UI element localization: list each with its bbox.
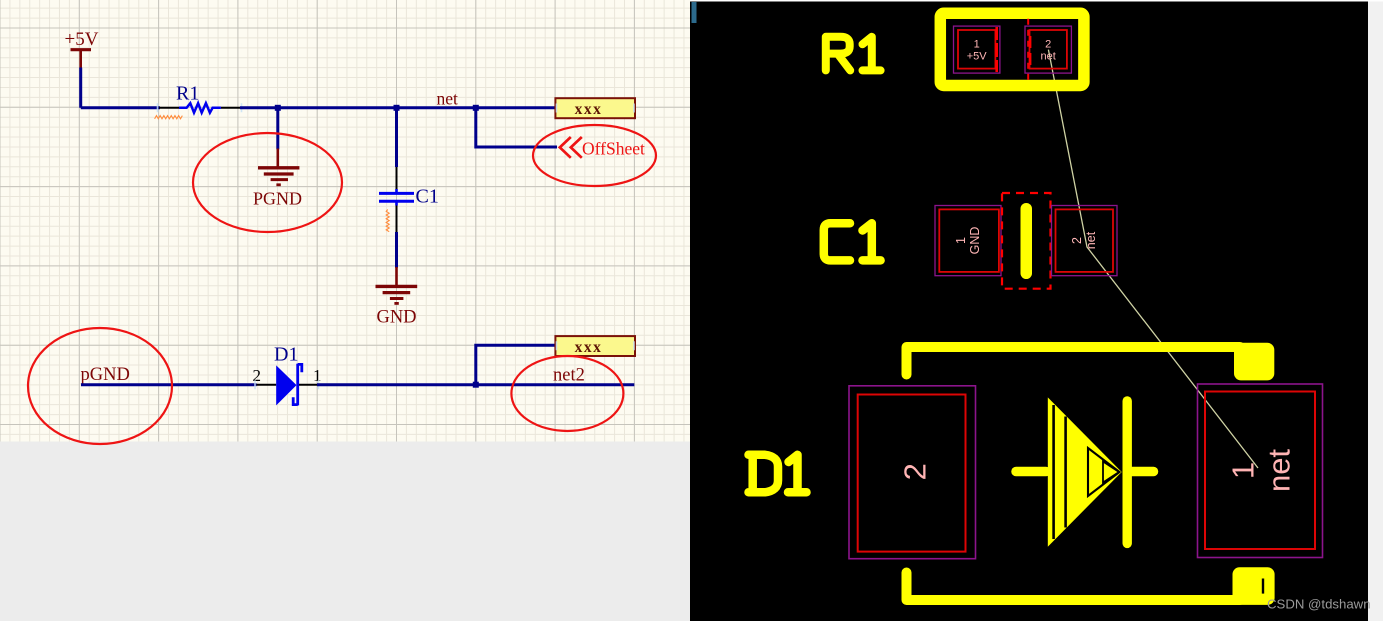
R1 footprint outline — [940, 13, 1084, 85]
annotation ellipse around OffSheet — [533, 125, 656, 186]
annotation ellipse around net2 — [511, 356, 623, 431]
R1 pad 2 — [1025, 26, 1071, 73]
major grid — [0, 0, 690, 442]
C1 courtyard dashed — [1002, 193, 1051, 289]
svg-text:2: 2 — [1070, 237, 1084, 244]
wire main horizontal middle — [240, 106, 555, 109]
R1 selection dashed line — [1027, 19, 1029, 80]
svg-text:GND: GND — [376, 308, 416, 328]
wire bottom left — [81, 383, 257, 386]
svg-text:net: net — [1041, 51, 1056, 63]
designator C1 (pcb) — [824, 223, 881, 260]
svg-text:OffSheet: OffSheet — [582, 139, 645, 159]
C1 silk bar — [1021, 203, 1033, 279]
svg-text:1: 1 — [313, 366, 322, 385]
port xxx top — [555, 98, 635, 118]
svg-text:net: net — [1262, 449, 1297, 492]
svg-text:xxx: xxx — [575, 101, 603, 118]
ground PGND — [253, 149, 302, 209]
wire C1 bottom — [395, 232, 398, 268]
svg-text:2: 2 — [898, 463, 933, 480]
scrollbar strip right — [1368, 0, 1383, 621]
pcb panel background — [690, 2, 1368, 622]
svg-text:R1: R1 — [176, 83, 199, 105]
error squiggle C1 — [386, 210, 389, 232]
wire C1 top — [395, 108, 398, 167]
C1 pad 2 — [1052, 206, 1118, 276]
gray area below sheet — [0, 442, 690, 622]
svg-text:2: 2 — [253, 366, 262, 385]
svg-text:CSDN @tdshawn: CSDN @tdshawn — [1267, 597, 1371, 612]
D1 pad 1 — [1198, 384, 1323, 558]
svg-text:PGND: PGND — [253, 189, 302, 209]
svg-text:+5V: +5V — [65, 29, 99, 50]
junction node R1/PGND — [275, 105, 281, 111]
svg-text:net2: net2 — [553, 366, 585, 386]
ratsnest line R1.2-C1.2-D1.1 — [1048, 50, 1258, 468]
svg-text:+5V: +5V — [967, 51, 988, 63]
svg-text:xxx: xxx — [575, 339, 603, 356]
svg-text:pGND: pGND — [81, 365, 130, 385]
D1 pad 2 — [849, 386, 976, 559]
annotation ellipse around PGND — [193, 133, 342, 232]
junction node net2 — [473, 382, 479, 388]
wire main horizontal left — [81, 106, 160, 109]
annotation ellipse around pGND — [28, 328, 172, 444]
resistor R1 — [158, 83, 242, 113]
junction node C1 — [394, 105, 400, 111]
R1 pad 1 — [954, 26, 1000, 73]
top white line — [690, 0, 1383, 2]
svg-text:net: net — [1084, 231, 1098, 249]
designator D1 (pcb) — [749, 455, 807, 493]
svg-text:2: 2 — [1045, 39, 1051, 51]
capacitor C1 — [379, 167, 439, 232]
wire bottom middle — [317, 383, 634, 386]
port xxx bottom — [555, 336, 635, 356]
wire PGND branch — [276, 108, 279, 150]
diode D1 — [253, 344, 322, 406]
svg-text:net: net — [437, 89, 459, 109]
svg-text:D1: D1 — [274, 344, 298, 366]
D1 silk top-right blob — [1234, 343, 1274, 381]
ground GND — [376, 267, 418, 328]
blob notch — [1262, 579, 1264, 594]
svg-text:1: 1 — [974, 39, 980, 51]
off-sheet connector OffSheet — [560, 137, 645, 159]
D1 silk top — [907, 347, 1241, 375]
schematic sheet background — [0, 0, 690, 442]
D1 silk bottom-right blob — [1233, 567, 1275, 605]
svg-text:1: 1 — [954, 237, 968, 244]
C1 pad 1 — [935, 206, 1001, 276]
svg-text:1: 1 — [1226, 462, 1261, 479]
wire to OffSheet — [476, 108, 557, 147]
error squiggle under R1 — [155, 116, 183, 119]
junction node net/offsheet — [473, 105, 479, 111]
svg-text:GND: GND — [968, 227, 982, 255]
teal scroll marker — [692, 2, 697, 23]
designator R1 (pcb) — [826, 37, 881, 71]
wire to port2 — [476, 345, 556, 385]
wire +5V vertical — [79, 68, 82, 108]
svg-text:C1: C1 — [416, 186, 439, 208]
power +5V — [65, 29, 99, 69]
fine grid — [0, 0, 690, 442]
D1 diode symbol — [1016, 397, 1154, 546]
D1 silk bottom — [907, 573, 1241, 601]
